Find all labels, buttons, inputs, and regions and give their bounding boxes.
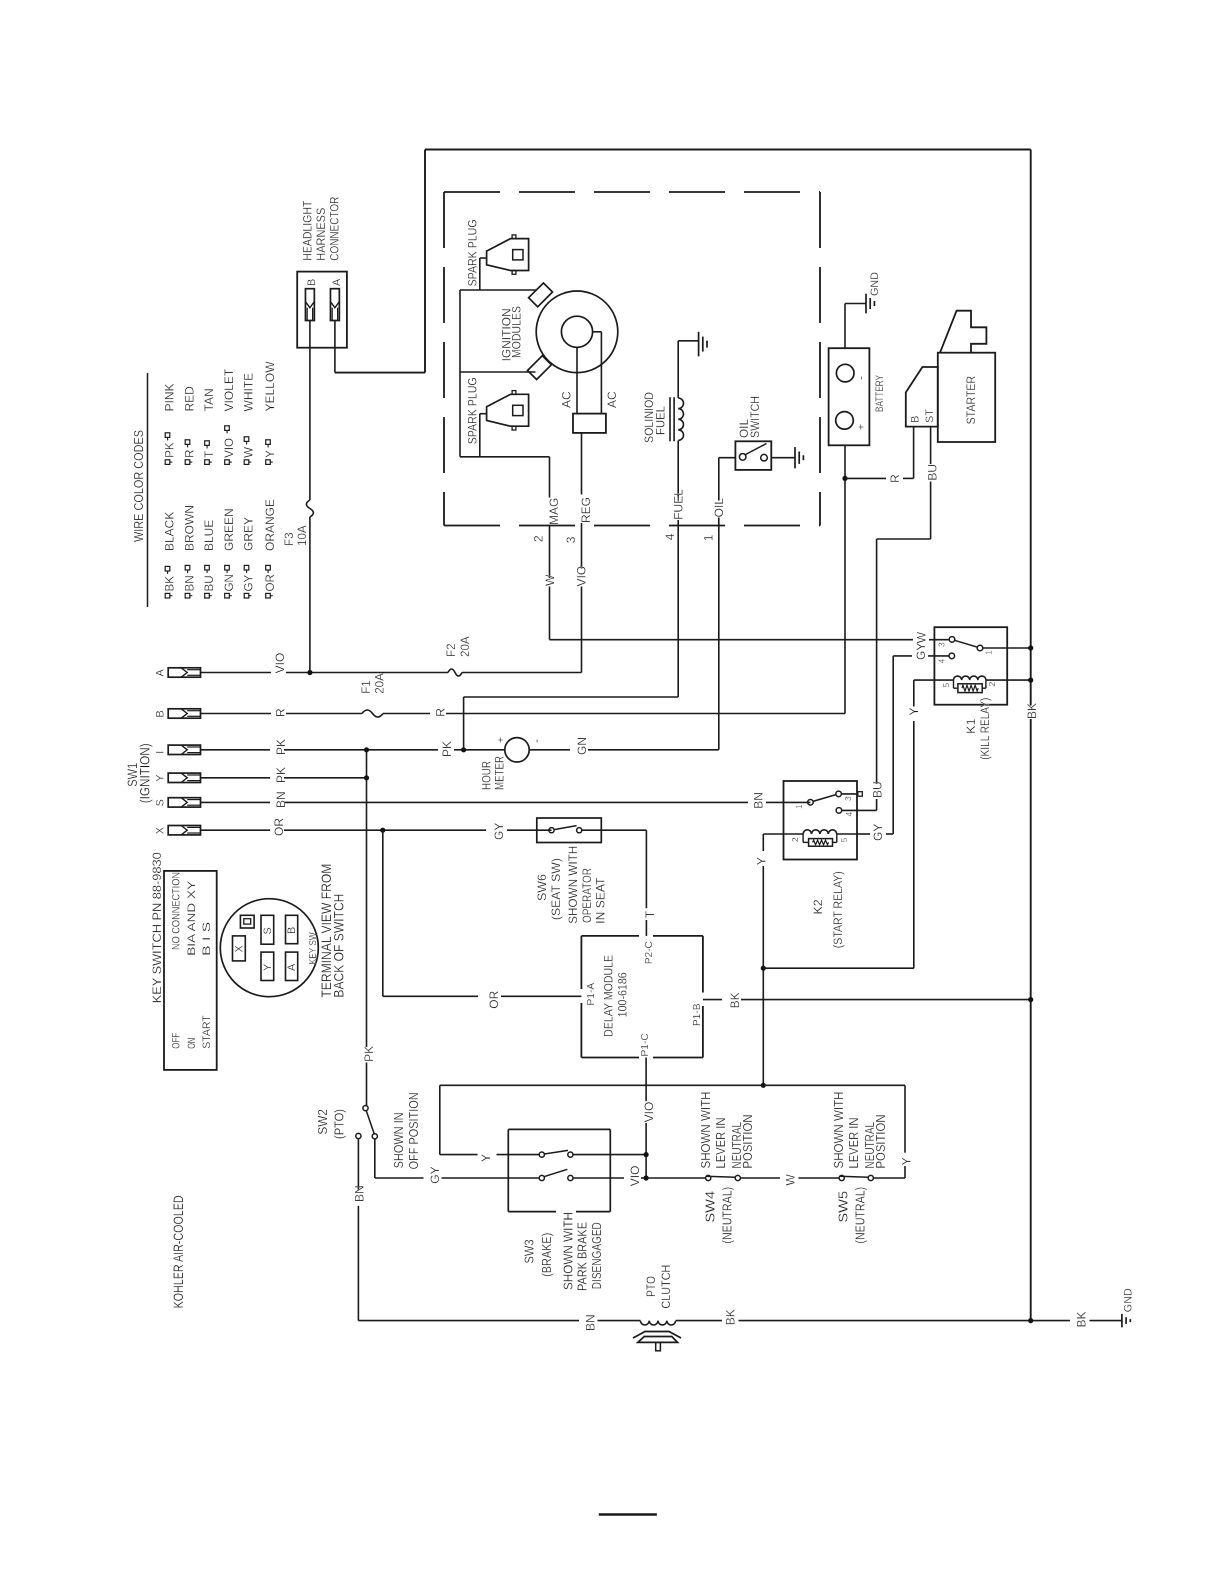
svg-text:SHOWN WITH: SHOWN WITH: [562, 1212, 576, 1290]
wire BK bus (solid box right edge): [1030, 150, 1032, 1321]
svg-text:T: T: [643, 910, 657, 918]
svg-text:BLACK: BLACK: [163, 512, 177, 551]
svg-text:CLUTCH: CLUTCH: [659, 1265, 673, 1309]
wire GY from SW2 to SW3: [375, 1139, 539, 1178]
seat switch SW6 labels: [535, 846, 607, 924]
relay K2 coil: [784, 830, 858, 843]
svg-text:A: A: [155, 669, 167, 677]
svg-text:SHOWN WITH: SHOWN WITH: [699, 1092, 713, 1169]
svg-text:(KILL RELAY): (KILL RELAY): [978, 698, 992, 760]
svg-text:BK: BK: [724, 1309, 738, 1325]
junction X-wire / OR drop: [380, 828, 385, 833]
svg-text:Y: Y: [262, 964, 274, 971]
svg-text:BU: BU: [926, 464, 940, 481]
svg-text:NO CONNECTION: NO CONNECTION: [171, 872, 183, 950]
switch SW2 (PTO): [356, 1106, 378, 1139]
junction K1 coil / BK bus: [1028, 678, 1033, 683]
engine dashed boundary box: [444, 192, 820, 526]
wire K2 coil to GY riser: [857, 656, 949, 834]
wire starter ST (BU) drop: [930, 427, 932, 464]
svg-text:SHOWN WITH: SHOWN WITH: [566, 846, 580, 924]
svg-text:ORANGE: ORANGE: [263, 499, 277, 551]
wire PK drop to SW2: [366, 778, 368, 1106]
svg-text:OR: OR: [487, 990, 501, 1008]
svg-text:3: 3: [843, 796, 853, 801]
svg-text:A: A: [331, 278, 343, 286]
svg-text:+: +: [495, 737, 507, 743]
junction BK wire / BK bus: [1028, 997, 1033, 1002]
wire BK from clutch to bus and ground: [676, 1320, 1122, 1322]
svg-text:BU: BU: [871, 781, 885, 798]
svg-text:VIO: VIO: [575, 566, 589, 587]
switch SW2 labels: [315, 1092, 421, 1169]
svg-text:BATTERY: BATTERY: [874, 375, 886, 412]
svg-text:AC: AC: [605, 391, 619, 408]
wire BN from SW2 to PTO clutch: [358, 1139, 640, 1321]
wire P1-B to BK bus: [703, 999, 1031, 1001]
color code row BN: [183, 386, 197, 598]
svg-text:ST: ST: [924, 409, 936, 423]
junction SW3 lower / VIO: [644, 1175, 649, 1180]
ground at oil switch: [794, 447, 796, 468]
svg-text:SW6: SW6: [535, 874, 549, 901]
wire AC left from flywheel: [576, 347, 578, 413]
fuel solenoid coil: [670, 341, 699, 442]
svg-text:2: 2: [790, 837, 800, 842]
svg-text:WHITE: WHITE: [242, 373, 256, 412]
flywheel: [536, 291, 618, 373]
svg-text:GY: GY: [428, 1166, 442, 1183]
svg-text:P2-C: P2-C: [644, 941, 655, 964]
switch SW5 (neutral): [839, 1175, 873, 1180]
switch SW3 labels: [521, 1212, 603, 1291]
wire P1-C VIO drop: [645, 1058, 647, 1179]
wire PK from terminal I: [201, 749, 505, 751]
svg-text:B: B: [286, 927, 298, 934]
ignition modules label: [500, 306, 524, 361]
svg-text:3: 3: [564, 536, 578, 543]
svg-text:BK: BK: [164, 576, 177, 592]
relay K1 coil resistor: [954, 680, 986, 693]
svg-text:BN: BN: [352, 1185, 366, 1202]
svg-text:20A: 20A: [459, 636, 472, 657]
svg-text:Y: Y: [155, 775, 167, 782]
svg-text:SPARK PLUG: SPARK PLUG: [465, 219, 479, 286]
headlight connector terminal B: [305, 279, 318, 321]
wire FUEL (4) drop: [464, 441, 679, 750]
svg-text:IN SEAT: IN SEAT: [593, 877, 607, 924]
table underline: [147, 373, 149, 607]
svg-text:(IGNITION): (IGNITION): [138, 743, 153, 803]
wire K2 contact 4 to BU riser: [842, 482, 931, 811]
svg-text:(PTO): (PTO): [331, 1109, 346, 1139]
svg-text:MODULES: MODULES: [510, 306, 524, 358]
svg-text:OR: OR: [264, 574, 277, 591]
key switch terminal A: [155, 668, 201, 677]
svg-text:AC: AC: [560, 391, 574, 408]
PTO clutch symbol: [633, 1332, 681, 1351]
color code row GN: [222, 368, 236, 598]
wire labels AC: [560, 391, 619, 408]
wire battery negative to ground: [845, 304, 866, 349]
svg-text:WIRE COLOR CODES: WIRE COLOR CODES: [132, 430, 146, 542]
svg-text:SPARK PLUG: SPARK PLUG: [465, 377, 479, 444]
wire OR drop to delay module P1-A: [383, 830, 582, 996]
svg-text:B: B: [306, 279, 318, 286]
svg-text:W: W: [784, 1174, 798, 1186]
fuel solenoid label: [642, 392, 667, 443]
svg-text:GN: GN: [575, 737, 589, 755]
svg-text:TAN: TAN: [202, 388, 216, 411]
switch SW4 labels: [699, 1092, 755, 1244]
relay K1 coil: [914, 676, 1031, 687]
ignition modules bracket: [460, 290, 550, 457]
relay K2 switch: [794, 791, 862, 816]
svg-text:PK: PK: [274, 767, 288, 783]
wire R from terminal B (with fuse F1): [201, 713, 846, 715]
wire K1 coil Y drop: [763, 680, 914, 968]
svg-text:SW4: SW4: [702, 1191, 717, 1223]
switch SW3 (brake) box: [508, 1128, 610, 1130]
svg-text:GY: GY: [243, 574, 256, 591]
svg-text:R: R: [184, 450, 197, 458]
svg-text:F1: F1: [360, 680, 373, 694]
color code row BU: [202, 388, 216, 598]
key switch terminal view circle: [220, 899, 318, 997]
junction Y-wire corner / PK drop to SW2: [364, 775, 369, 780]
key switch terminal blank: [240, 915, 254, 928]
engine compartment solid boundary box: [425, 150, 1031, 373]
color code row BK: [163, 383, 177, 598]
svg-text:FUEL: FUEL: [653, 406, 667, 435]
wire REG riser (3 / VIO): [581, 433, 583, 673]
svg-text:DELAY MODULE: DELAY MODULE: [602, 955, 616, 1037]
ignition module lower: [528, 356, 552, 380]
svg-text:GREEN: GREEN: [222, 508, 236, 551]
svg-text:PINK: PINK: [163, 383, 177, 411]
svg-text:SW3: SW3: [521, 1240, 536, 1264]
svg-text:OIL: OIL: [712, 498, 726, 518]
svg-text:PARK BRAKE: PARK BRAKE: [576, 1222, 590, 1291]
svg-text:P1-A: P1-A: [586, 983, 597, 1006]
svg-text:BK: BK: [728, 992, 742, 1008]
junction BK bus / bottom wire: [1028, 1318, 1033, 1323]
key switch terminal X: [233, 936, 246, 961]
svg-text:F3: F3: [283, 532, 296, 546]
seat switch SW6 box: [537, 818, 602, 843]
seat switch SW6 contacts and blade: [549, 826, 582, 833]
headlight connector terminal A: [330, 278, 342, 321]
junction Y riser / K1 Y wire: [761, 966, 766, 971]
relay K1 box: [934, 627, 1007, 705]
svg-text:Y: Y: [899, 1157, 913, 1165]
key switch terminal Y: [261, 952, 274, 980]
svg-text:VIO: VIO: [642, 1102, 656, 1123]
svg-text:GY: GY: [871, 824, 885, 841]
svg-text:CONNECTOR: CONNECTOR: [328, 196, 342, 260]
svg-text:(SEAT SW): (SEAT SW): [549, 858, 563, 920]
svg-text:OPERATOR: OPERATOR: [580, 868, 594, 923]
svg-text:R: R: [434, 708, 448, 717]
svg-text:HARNESS: HARNESS: [314, 208, 328, 261]
fuse F3 10A: [283, 500, 313, 546]
svg-text:-: -: [529, 739, 543, 743]
starter motor outline: [940, 311, 986, 353]
svg-text:HEADLIGHT: HEADLIGHT: [301, 200, 315, 261]
svg-text:+: +: [856, 424, 868, 430]
svg-text:POSITION: POSITION: [874, 1115, 888, 1169]
delay module 100-6186 box: [581, 936, 703, 1058]
svg-text:VIOLET: VIOLET: [222, 368, 236, 411]
svg-text:4: 4: [937, 659, 947, 664]
oil switch label: [737, 396, 762, 438]
ground at fuel solenoid: [698, 332, 700, 357]
svg-text:I: I: [155, 751, 167, 754]
svg-text:DISENGAGED: DISENGAGED: [590, 1222, 604, 1289]
svg-text:STARTER: STARTER: [964, 376, 978, 425]
svg-text:SW5: SW5: [835, 1191, 850, 1223]
svg-text:K2: K2: [811, 899, 825, 914]
svg-text:1: 1: [701, 534, 715, 541]
svg-text:BN: BN: [274, 791, 288, 808]
svg-text:KEY SWITCH PN 88-9830: KEY SWITCH PN 88-9830: [150, 852, 164, 1003]
switch SW3 lower contacts (open): [539, 1169, 646, 1180]
svg-text:1: 1: [984, 650, 994, 655]
svg-text:(START RELAY): (START RELAY): [831, 871, 845, 948]
wire VIO to SW4: [646, 1177, 706, 1179]
key switch terminal B: [286, 915, 299, 943]
svg-text:START: START: [201, 1015, 213, 1049]
wire GN riser (1 / OIL): [718, 458, 720, 750]
svg-text:REG: REG: [579, 497, 593, 523]
svg-text:GND: GND: [869, 272, 881, 296]
key switch terminal Y: [155, 773, 201, 782]
svg-text:4: 4: [663, 533, 677, 540]
svg-text:SHOWN WITH: SHOWN WITH: [832, 1092, 846, 1169]
headlight harness connector label: [301, 196, 342, 260]
svg-text:W: W: [915, 631, 929, 643]
wire engine box left edge bottom: [335, 372, 425, 374]
junction K1 contact / BK bus: [1028, 645, 1033, 650]
wire R branch to starter B: [845, 427, 914, 479]
svg-text:-: -: [854, 376, 868, 380]
svg-text:VIO: VIO: [628, 1166, 642, 1187]
svg-text:5: 5: [839, 838, 849, 843]
svg-text:GY: GY: [914, 643, 928, 660]
svg-text:GND: GND: [1123, 1288, 1135, 1312]
svg-text:R: R: [274, 708, 288, 717]
fuse F1 20A: [360, 673, 387, 717]
svg-text:PK: PK: [440, 741, 454, 757]
svg-text:K1: K1: [964, 718, 978, 733]
svg-text:20A: 20A: [374, 673, 387, 694]
svg-text:BK: BK: [1075, 1311, 1089, 1327]
svg-text:PK: PK: [274, 739, 288, 755]
switch SW4 (neutral): [706, 1175, 839, 1180]
svg-text:FUEL: FUEL: [671, 489, 685, 520]
svg-text:METER: METER: [493, 756, 507, 790]
svg-text:SHOWN IN: SHOWN IN: [391, 1112, 406, 1168]
color code row GY: [242, 373, 256, 598]
svg-text:X: X: [155, 827, 167, 834]
regulator block: [573, 414, 606, 433]
svg-text:POSITION: POSITION: [741, 1115, 755, 1169]
svg-text:S: S: [262, 927, 274, 934]
wire headlight B to key switch VIO (with fuse F3): [309, 321, 311, 673]
wire VIO from terminal A: [201, 672, 582, 674]
spark plug lower: [465, 377, 528, 457]
svg-text:(NEUTRAL): (NEUTRAL): [853, 1187, 868, 1244]
key switch SW1 label: [125, 743, 153, 803]
svg-text:MAG: MAG: [547, 498, 561, 525]
fuse F2 20A: [445, 636, 472, 676]
terminal view caption: [319, 864, 347, 998]
svg-text:LEVER IN: LEVER IN: [847, 1118, 861, 1169]
key switch terminal X: [155, 826, 201, 835]
svg-text:BLUE: BLUE: [202, 520, 216, 551]
svg-text:BN: BN: [583, 1314, 597, 1331]
svg-text:2: 2: [531, 535, 545, 542]
junction Y riser / Y horizontal: [761, 1083, 766, 1088]
oil switch: [719, 441, 795, 470]
svg-text:100-6186: 100-6186: [616, 972, 630, 1017]
svg-text:PK: PK: [362, 1046, 376, 1062]
svg-text:P1-C: P1-C: [640, 1033, 651, 1056]
battery terminals: [836, 364, 868, 430]
svg-text:Y: Y: [264, 450, 277, 458]
hour meter: [480, 737, 719, 790]
svg-text:3: 3: [937, 642, 947, 647]
svg-text:2: 2: [987, 682, 997, 687]
key switch terminal B: [155, 709, 201, 718]
svg-text:S: S: [155, 799, 167, 806]
switch SW5 labels: [832, 1092, 888, 1244]
ignition module upper: [529, 283, 553, 307]
svg-text:GY: GY: [492, 823, 506, 840]
switch SW3 upper contacts (closed): [539, 1150, 646, 1157]
svg-text:KEY SW: KEY SW: [308, 932, 319, 964]
svg-text:BN: BN: [184, 575, 197, 591]
svg-text:Y: Y: [479, 1154, 493, 1162]
svg-text:10A: 10A: [296, 525, 309, 546]
svg-text:(BRAKE): (BRAKE): [539, 1233, 554, 1277]
svg-text:OFF POSITION: OFF POSITION: [406, 1092, 421, 1169]
junction I-wire / fuel branch: [461, 747, 466, 752]
svg-text:5: 5: [941, 683, 951, 688]
key switch position table box: [164, 871, 217, 1070]
svg-text:SW2: SW2: [315, 1109, 330, 1135]
relay K1 label: [964, 698, 992, 760]
key switch terminal S: [155, 798, 201, 807]
svg-text:(NEUTRAL): (NEUTRAL): [720, 1187, 735, 1244]
ground GND at battery: [866, 272, 881, 313]
junction SW3 upper / VIO: [644, 1152, 649, 1157]
wire MAG (2 / W) from engine to K1: [550, 457, 950, 640]
battery box: [829, 348, 870, 445]
svg-text:X: X: [234, 945, 246, 952]
wire BN from terminal S to K2: [201, 801, 811, 803]
svg-text:SWITCH: SWITCH: [748, 396, 762, 438]
svg-text:B: B: [910, 416, 922, 423]
relay K2 coil resistor: [803, 834, 837, 846]
svg-text:A: A: [286, 963, 298, 971]
svg-text:LEVER IN: LEVER IN: [714, 1118, 728, 1169]
starter terminal labels: [910, 409, 936, 423]
spark plug upper: [465, 219, 528, 290]
svg-text:GN: GN: [223, 574, 236, 591]
wire SW6 to delay module P2-C (T): [582, 830, 647, 936]
relay K2 label: [811, 871, 845, 948]
key switch terminal A: [286, 952, 299, 980]
svg-text:1: 1: [794, 804, 804, 809]
svg-text:B: B: [155, 710, 167, 717]
wire K2 coil 2 to Y riser: [763, 834, 783, 1085]
svg-text:HOUR: HOUR: [480, 761, 494, 790]
svg-text:BU: BU: [203, 575, 216, 591]
svg-text:BIA AND XY: BIA AND XY: [186, 880, 198, 956]
key switch position table rows: [171, 872, 214, 1049]
wire headlight A to engine box: [334, 321, 336, 373]
headlight harness connector box: [297, 272, 347, 348]
svg-text:R: R: [888, 474, 902, 483]
junction headlight-B / VIO: [307, 670, 312, 675]
svg-text:OR: OR: [272, 818, 286, 836]
page footer line: [599, 1513, 657, 1515]
svg-text:W: W: [543, 574, 557, 586]
junction I-wire / Y-wire: [364, 747, 369, 752]
svg-text:Y: Y: [755, 857, 769, 865]
wire R riser to battery +: [844, 445, 846, 713]
svg-text:W: W: [243, 447, 256, 458]
svg-text:YELLOW: YELLOW: [263, 361, 277, 412]
PTO clutch label: [644, 1265, 673, 1309]
color code row OR: [263, 361, 277, 598]
svg-text:4: 4: [844, 812, 854, 817]
svg-text:BROWN: BROWN: [183, 505, 197, 551]
svg-text:ON: ON: [186, 1038, 198, 1049]
svg-text:PTO: PTO: [644, 1276, 658, 1297]
svg-text:P1-B: P1-B: [692, 1003, 703, 1026]
PTO clutch coil: [640, 1321, 675, 1325]
delay module text: [602, 955, 630, 1037]
svg-text:KOHLER AIR-COOLED: KOHLER AIR-COOLED: [171, 1195, 186, 1308]
svg-text:VIO: VIO: [273, 653, 287, 674]
svg-text:BK: BK: [1025, 703, 1039, 719]
key switch terminal S: [261, 915, 274, 944]
key switch terminal I: [155, 745, 201, 754]
svg-text:BACK OF SWITCH: BACK OF SWITCH: [332, 894, 347, 998]
wire AC right from flywheel: [593, 332, 602, 414]
starter solenoid: [906, 367, 938, 427]
svg-text:F2: F2: [445, 643, 458, 657]
svg-text:B I S: B I S: [201, 922, 213, 956]
svg-text:PK: PK: [164, 442, 177, 458]
junction R / starter branch: [842, 476, 847, 481]
relay K2 box: [784, 781, 858, 860]
ground GND bottom right: [1122, 1288, 1135, 1327]
svg-text:BN: BN: [752, 792, 766, 809]
svg-text:T: T: [203, 451, 216, 458]
wire OR from terminal X: [201, 829, 552, 831]
svg-text:RED: RED: [183, 386, 197, 412]
svg-text:VIO: VIO: [223, 438, 236, 458]
wire PK from terminal Y: [201, 750, 367, 778]
svg-text:GREY: GREY: [242, 517, 256, 551]
wire Y horizontal distribution: [440, 1085, 905, 1178]
svg-text:Y: Y: [907, 707, 921, 715]
starter main box: [938, 353, 995, 442]
svg-text:OFF: OFF: [171, 1033, 183, 1049]
